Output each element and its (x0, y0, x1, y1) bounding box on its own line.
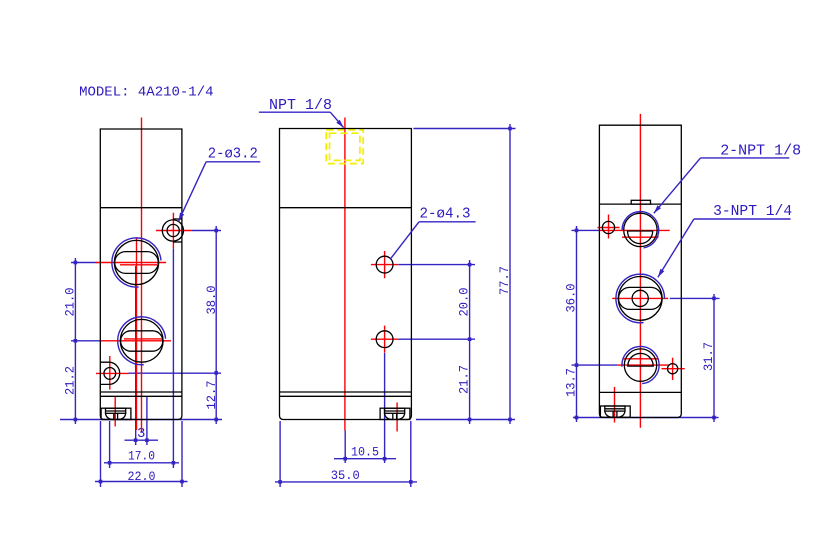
svg-text:2-ø4.3: 2-ø4.3 (420, 206, 471, 223)
svg-text:2-NPT 1/8: 2-NPT 1/8 (720, 142, 801, 159)
svg-text:MODEL: 4A210-1/4: MODEL: 4A210-1/4 (79, 85, 213, 101)
svg-text:38.0: 38.0 (204, 286, 219, 315)
svg-text:20.0: 20.0 (457, 288, 472, 317)
svg-text:17.0: 17.0 (128, 449, 155, 464)
svg-text:10.5: 10.5 (351, 444, 379, 459)
svg-text:77.7: 77.7 (497, 266, 512, 295)
svg-text:2-ø3.2: 2-ø3.2 (208, 146, 258, 163)
svg-text:22.0: 22.0 (128, 469, 156, 484)
svg-text:36.0: 36.0 (564, 284, 579, 313)
svg-text:31.7: 31.7 (701, 342, 716, 371)
svg-text:3-NPT 1/4: 3-NPT 1/4 (713, 203, 792, 220)
svg-text:13.7: 13.7 (564, 368, 579, 397)
svg-text:21.0: 21.0 (62, 288, 77, 317)
svg-text:35.0: 35.0 (331, 468, 360, 483)
svg-text:21.2: 21.2 (62, 366, 77, 395)
svg-text:21.7: 21.7 (457, 365, 472, 394)
svg-text:12.7: 12.7 (204, 381, 219, 410)
